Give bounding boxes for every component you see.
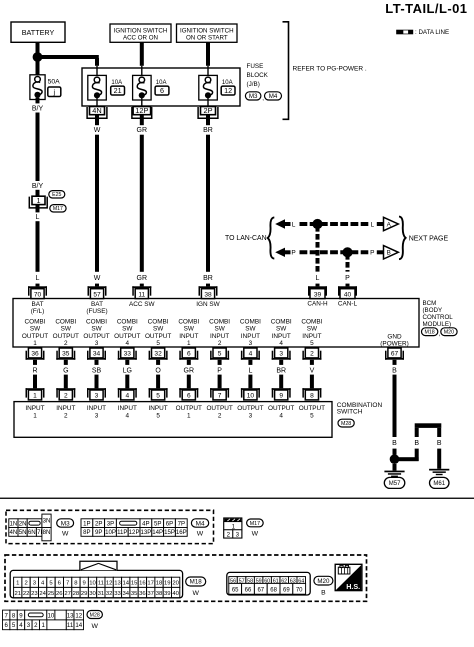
- svg-text:SWITCH: SWITCH: [337, 408, 363, 415]
- svg-text:17: 17: [147, 581, 154, 587]
- svg-text:L: L: [248, 367, 252, 374]
- svg-text:1: 1: [33, 340, 37, 347]
- svg-text:V: V: [310, 367, 315, 374]
- svg-text:B/Y: B/Y: [32, 105, 44, 112]
- svg-text:ON OR START: ON OR START: [186, 35, 228, 42]
- svg-text:W: W: [192, 590, 199, 597]
- svg-text:5P: 5P: [154, 521, 161, 528]
- svg-text:5: 5: [156, 413, 160, 420]
- svg-text:21: 21: [15, 591, 22, 597]
- svg-text:20: 20: [172, 581, 179, 587]
- svg-text:1: 1: [42, 622, 46, 629]
- svg-text:6: 6: [187, 351, 191, 358]
- svg-text:ACC SW: ACC SW: [129, 301, 156, 308]
- svg-text:70: 70: [34, 291, 42, 298]
- svg-text:2P: 2P: [203, 106, 212, 115]
- svg-text:INPUT: INPUT: [149, 405, 168, 412]
- svg-text:15P: 15P: [164, 529, 175, 536]
- svg-text:B: B: [392, 367, 397, 374]
- svg-text:COMBI: COMBI: [240, 318, 261, 325]
- svg-text:COMBI: COMBI: [178, 318, 199, 325]
- svg-text:5: 5: [156, 340, 160, 347]
- svg-text:INPUT: INPUT: [210, 333, 229, 340]
- svg-text:OUTPUT: OUTPUT: [206, 405, 232, 412]
- svg-text:2: 2: [227, 532, 231, 539]
- svg-text:(FUSE): (FUSE): [86, 308, 107, 315]
- svg-text:13: 13: [67, 612, 74, 619]
- svg-text:IGNITION SWITCH: IGNITION SWITCH: [114, 27, 168, 34]
- svg-text:11: 11: [138, 291, 145, 298]
- svg-text:11: 11: [67, 622, 74, 629]
- svg-text:6: 6: [160, 86, 164, 95]
- svg-text:7P: 7P: [178, 521, 185, 528]
- svg-text:INPUT: INPUT: [118, 405, 137, 412]
- svg-text:5N: 5N: [19, 529, 27, 536]
- svg-text:M4: M4: [196, 520, 205, 527]
- svg-text:SW: SW: [30, 326, 41, 333]
- svg-text:29: 29: [81, 591, 88, 597]
- svg-text:1: 1: [37, 196, 41, 205]
- svg-text:1: 1: [187, 413, 191, 420]
- svg-text:SW: SW: [153, 326, 164, 333]
- svg-text:11P: 11P: [117, 529, 127, 536]
- svg-text:36: 36: [139, 591, 146, 597]
- svg-text:OUTPUT: OUTPUT: [22, 333, 48, 340]
- svg-text:10: 10: [89, 581, 96, 587]
- svg-text:SW: SW: [91, 326, 102, 333]
- svg-text:66: 66: [245, 588, 252, 594]
- svg-text:8P: 8P: [83, 529, 90, 536]
- svg-text:7: 7: [5, 612, 9, 619]
- svg-text:BAT: BAT: [32, 301, 44, 308]
- svg-text:9: 9: [83, 581, 86, 587]
- svg-text:M4: M4: [269, 93, 278, 100]
- svg-text:4: 4: [125, 393, 129, 400]
- svg-text:P: P: [345, 275, 350, 282]
- svg-text:L: L: [36, 275, 40, 282]
- svg-text:4: 4: [126, 340, 130, 347]
- svg-text:1P: 1P: [83, 521, 90, 528]
- svg-text:30: 30: [89, 591, 96, 597]
- svg-text:(J/B): (J/B): [247, 81, 260, 88]
- svg-text:M3: M3: [61, 520, 70, 527]
- svg-text:BATTERY: BATTERY: [22, 28, 55, 37]
- svg-text:OUTPUT: OUTPUT: [299, 405, 325, 412]
- svg-text:12P: 12P: [129, 529, 140, 536]
- svg-text:15: 15: [131, 581, 138, 587]
- svg-text:M28: M28: [90, 612, 100, 618]
- svg-text:W: W: [91, 623, 98, 630]
- svg-text:32: 32: [154, 351, 162, 358]
- svg-text:8: 8: [310, 393, 314, 400]
- svg-text:24: 24: [39, 591, 46, 597]
- svg-text:69: 69: [283, 588, 290, 594]
- svg-text:67: 67: [391, 351, 399, 358]
- svg-text:OUTPUT: OUTPUT: [237, 405, 263, 412]
- svg-text:INPUT: INPUT: [272, 333, 291, 340]
- svg-text:INPUT: INPUT: [56, 405, 75, 412]
- svg-text:OUTPUT: OUTPUT: [268, 405, 294, 412]
- svg-text:18: 18: [156, 581, 163, 587]
- svg-text:H.S.: H.S.: [346, 582, 360, 591]
- svg-text:M18: M18: [190, 579, 203, 586]
- svg-text:COMBI: COMBI: [55, 318, 76, 325]
- svg-text:BAT: BAT: [91, 301, 103, 308]
- svg-text:12: 12: [224, 86, 232, 95]
- svg-text:1: 1: [33, 413, 37, 420]
- svg-text:35: 35: [131, 591, 138, 597]
- svg-text:COMBI: COMBI: [25, 318, 46, 325]
- svg-text:W: W: [62, 531, 69, 538]
- svg-text:33: 33: [114, 591, 121, 597]
- svg-text:W: W: [94, 275, 101, 282]
- svg-text:LT-TAIL/L-01: LT-TAIL/L-01: [385, 1, 467, 16]
- svg-text:3: 3: [95, 393, 99, 400]
- svg-text:3: 3: [249, 413, 253, 420]
- svg-text:W: W: [94, 127, 101, 134]
- svg-text:4: 4: [249, 351, 253, 358]
- svg-text:10: 10: [48, 612, 55, 619]
- svg-text:6: 6: [187, 393, 191, 400]
- svg-text:11: 11: [98, 581, 104, 587]
- svg-text:50A: 50A: [48, 79, 61, 86]
- svg-text:3: 3: [279, 351, 283, 358]
- svg-text:REFER TO PG-POWER .: REFER TO PG-POWER .: [293, 65, 367, 72]
- svg-text:IGNITION SWITCH: IGNITION SWITCH: [180, 27, 234, 34]
- svg-text:OUTPUT: OUTPUT: [176, 405, 202, 412]
- svg-text:9P: 9P: [95, 529, 102, 536]
- svg-text:4N: 4N: [10, 529, 18, 536]
- svg-text:16P: 16P: [176, 529, 187, 536]
- svg-text:12: 12: [106, 581, 113, 587]
- svg-text:2: 2: [64, 393, 68, 400]
- svg-text:GR: GR: [137, 127, 148, 134]
- svg-text:: DATA LINE: : DATA LINE: [415, 29, 449, 36]
- svg-text:COMBI: COMBI: [271, 318, 292, 325]
- svg-text:SW: SW: [276, 326, 287, 333]
- svg-text:6P: 6P: [166, 521, 173, 528]
- svg-text:INPUT: INPUT: [302, 333, 321, 340]
- svg-text:3: 3: [95, 413, 99, 420]
- svg-text:65: 65: [232, 588, 239, 594]
- svg-text:14: 14: [75, 622, 82, 629]
- svg-text:34: 34: [123, 591, 130, 597]
- svg-text:4N: 4N: [92, 106, 101, 115]
- svg-text:14: 14: [123, 581, 130, 587]
- svg-text:40: 40: [344, 291, 352, 298]
- svg-text:E25: E25: [52, 192, 61, 198]
- svg-text:2: 2: [24, 581, 27, 587]
- svg-text:5: 5: [310, 340, 314, 347]
- svg-text:P: P: [370, 250, 374, 257]
- svg-text:2: 2: [310, 351, 314, 358]
- svg-text:13P: 13P: [140, 529, 151, 536]
- svg-text:BR: BR: [203, 275, 213, 282]
- svg-text:4: 4: [126, 413, 130, 420]
- svg-text:67: 67: [257, 588, 264, 594]
- svg-text:19: 19: [164, 581, 171, 587]
- svg-text:OUTPUT: OUTPUT: [114, 333, 140, 340]
- svg-text:INPUT: INPUT: [25, 405, 44, 412]
- svg-text:j: j: [53, 89, 56, 96]
- svg-text:P: P: [217, 367, 222, 374]
- svg-text:OUTPUT: OUTPUT: [53, 333, 79, 340]
- svg-text:M28: M28: [341, 421, 351, 427]
- svg-text:1: 1: [33, 393, 37, 400]
- svg-text:M20: M20: [444, 330, 454, 336]
- svg-text:22: 22: [23, 591, 30, 597]
- svg-text:SW: SW: [122, 326, 133, 333]
- svg-text:B: B: [414, 440, 419, 447]
- svg-text:M3: M3: [249, 93, 258, 100]
- svg-text:31: 31: [98, 591, 105, 597]
- svg-text:O: O: [155, 367, 161, 374]
- svg-text:GR: GR: [184, 367, 195, 374]
- svg-text:2P: 2P: [95, 521, 102, 528]
- svg-text:39: 39: [314, 291, 322, 298]
- svg-text:SB: SB: [92, 367, 102, 374]
- svg-text:32: 32: [106, 591, 113, 597]
- svg-text:W: W: [252, 530, 259, 537]
- svg-text:GND: GND: [387, 333, 402, 340]
- svg-text:B/Y: B/Y: [32, 183, 44, 190]
- svg-text:GR: GR: [137, 275, 148, 282]
- svg-text:7: 7: [218, 393, 222, 400]
- svg-text:1: 1: [16, 581, 19, 587]
- svg-text:BR: BR: [203, 127, 213, 134]
- svg-text:B: B: [321, 589, 326, 596]
- svg-text:SW: SW: [245, 326, 256, 333]
- svg-text:INPUT: INPUT: [241, 333, 260, 340]
- svg-text:2N: 2N: [19, 521, 27, 528]
- svg-text:L: L: [36, 214, 40, 221]
- svg-text:16: 16: [139, 581, 146, 587]
- svg-text:SW: SW: [307, 326, 318, 333]
- svg-text:4P: 4P: [142, 521, 149, 528]
- svg-text:COMBI: COMBI: [301, 318, 322, 325]
- svg-text:IGN SW: IGN SW: [196, 301, 220, 308]
- svg-text:BCM: BCM: [423, 300, 437, 307]
- svg-text:M17: M17: [250, 521, 260, 527]
- svg-text:3P: 3P: [107, 521, 114, 528]
- svg-text:33: 33: [124, 351, 132, 358]
- svg-text:68: 68: [270, 588, 277, 594]
- svg-text:10P: 10P: [105, 529, 116, 536]
- svg-text:25: 25: [48, 591, 55, 597]
- svg-text:28: 28: [73, 591, 80, 597]
- svg-text:70: 70: [296, 588, 303, 594]
- svg-text:SW: SW: [184, 326, 195, 333]
- svg-text:5: 5: [156, 393, 160, 400]
- svg-text:5: 5: [218, 351, 222, 358]
- svg-text:2: 2: [218, 340, 222, 347]
- svg-text:CONTROL: CONTROL: [423, 314, 454, 321]
- svg-text:36: 36: [31, 351, 39, 358]
- svg-text:(BODY: (BODY: [423, 307, 443, 314]
- svg-text:40: 40: [172, 591, 179, 597]
- svg-text:1: 1: [187, 340, 191, 347]
- svg-text:L: L: [316, 275, 320, 282]
- svg-text:M17: M17: [53, 206, 63, 212]
- svg-text:B: B: [437, 440, 442, 447]
- svg-text:3: 3: [27, 622, 31, 629]
- svg-text:10: 10: [247, 393, 255, 400]
- svg-text:7: 7: [66, 581, 69, 587]
- svg-text:LG: LG: [123, 367, 132, 374]
- svg-text:L: L: [370, 221, 374, 228]
- svg-text:INPUT: INPUT: [179, 333, 198, 340]
- svg-text:3: 3: [236, 532, 240, 539]
- svg-text:G: G: [63, 367, 68, 374]
- svg-text:(POWER): (POWER): [380, 340, 408, 347]
- svg-text:2: 2: [64, 413, 68, 420]
- svg-text:P: P: [291, 250, 295, 257]
- svg-text:34: 34: [93, 351, 101, 358]
- svg-text:COMBI: COMBI: [117, 318, 138, 325]
- svg-text:NEXT PAGE: NEXT PAGE: [409, 236, 449, 243]
- svg-text:1N: 1N: [10, 521, 18, 528]
- svg-text:26: 26: [56, 591, 63, 597]
- svg-text:CAN-H: CAN-H: [307, 300, 328, 307]
- svg-text:M20: M20: [317, 578, 330, 585]
- svg-text:14P: 14P: [152, 529, 163, 536]
- svg-text:6: 6: [5, 622, 9, 629]
- svg-text:R: R: [32, 367, 37, 374]
- svg-text:2: 2: [64, 340, 68, 347]
- svg-text:4: 4: [279, 340, 283, 347]
- svg-text:COMBI: COMBI: [209, 318, 230, 325]
- svg-text:21: 21: [114, 86, 122, 95]
- svg-text:OUTPUT: OUTPUT: [145, 333, 171, 340]
- svg-text:38: 38: [204, 291, 212, 298]
- svg-text:12P: 12P: [135, 106, 148, 115]
- svg-text:38: 38: [156, 591, 163, 597]
- svg-text:CAN-L: CAN-L: [338, 300, 358, 307]
- svg-text:27: 27: [64, 591, 71, 597]
- svg-text:3: 3: [95, 340, 99, 347]
- svg-text:W: W: [197, 531, 204, 538]
- svg-text:B: B: [392, 440, 397, 447]
- svg-text:L: L: [292, 221, 296, 228]
- svg-text:3: 3: [249, 340, 253, 347]
- svg-text:FUSE: FUSE: [247, 63, 264, 70]
- svg-text:13: 13: [114, 581, 121, 587]
- svg-text:COMBI: COMBI: [86, 318, 107, 325]
- svg-text:6N: 6N: [28, 529, 36, 536]
- svg-text:2: 2: [218, 413, 222, 420]
- svg-text:35: 35: [62, 351, 70, 358]
- svg-text:M61: M61: [433, 481, 445, 487]
- svg-text:M18: M18: [424, 330, 434, 336]
- svg-text:SW: SW: [214, 326, 225, 333]
- svg-text:M57: M57: [389, 481, 401, 487]
- svg-text:23: 23: [31, 591, 38, 597]
- svg-text:12: 12: [75, 612, 82, 619]
- svg-text:BR: BR: [276, 367, 286, 374]
- svg-text:5: 5: [310, 413, 314, 420]
- svg-text:3N: 3N: [43, 517, 51, 524]
- svg-text:INPUT: INPUT: [87, 405, 106, 412]
- svg-text:COMBI: COMBI: [148, 318, 169, 325]
- svg-text:39: 39: [164, 591, 171, 597]
- svg-text:OUTPUT: OUTPUT: [83, 333, 109, 340]
- svg-text:4: 4: [279, 413, 283, 420]
- svg-text:37: 37: [147, 591, 154, 597]
- svg-text:BLOCK: BLOCK: [247, 72, 269, 79]
- svg-text:9: 9: [279, 393, 283, 400]
- svg-text:B: B: [387, 250, 391, 257]
- svg-text:TO LAN-CAN: TO LAN-CAN: [225, 235, 267, 242]
- svg-text:ACC OR ON: ACC OR ON: [123, 35, 158, 42]
- svg-text:MODULE): MODULE): [423, 321, 452, 328]
- svg-text:8N: 8N: [43, 529, 51, 536]
- svg-text:SW: SW: [61, 326, 72, 333]
- svg-text:(F/L): (F/L): [31, 308, 45, 315]
- svg-text:57: 57: [93, 291, 101, 298]
